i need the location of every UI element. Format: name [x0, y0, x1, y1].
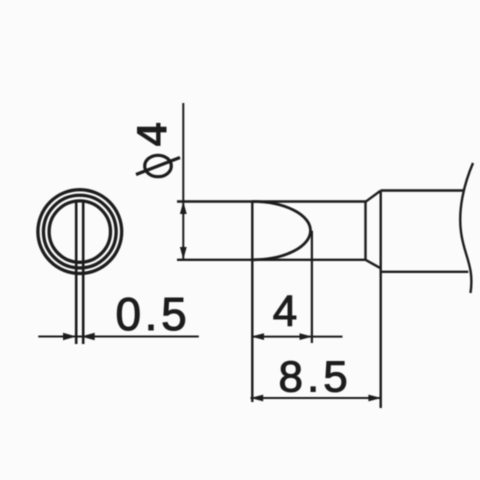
svg-text:4: 4 [273, 287, 297, 336]
svg-text:4: 4 [129, 123, 177, 147]
svg-text:8.5: 8.5 [279, 353, 352, 402]
svg-text:0.5: 0.5 [116, 288, 191, 340]
